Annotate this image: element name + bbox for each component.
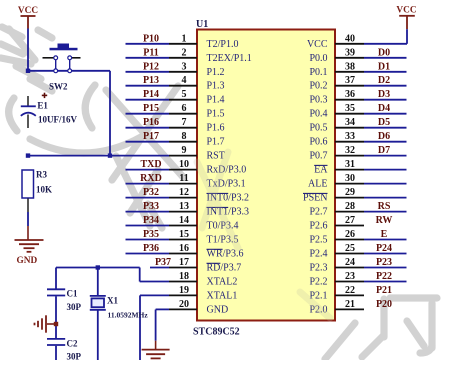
svg-text:P0.7: P0.7 [309, 151, 327, 162]
wire crystal top rail [56, 268, 140, 282]
svg-text:P0.4: P0.4 [309, 109, 327, 120]
pin 37 row (right) P0.2 [309, 75, 406, 92]
svg-text:P1.2: P1.2 [207, 67, 225, 78]
pin 3 row (left) P1.2 [126, 61, 225, 78]
node junction riser/RST [108, 153, 112, 157]
pin 36 row (right) P0.3 [309, 89, 406, 106]
pin 14 row (left) T0/P3.4 [126, 215, 239, 232]
pin 30 row (right) ALE [308, 173, 406, 190]
svg-text:U1: U1 [196, 19, 208, 30]
svg-text:RS: RS [378, 201, 391, 212]
node junction X1 top [96, 265, 100, 269]
svg-text:P35: P35 [143, 229, 159, 240]
svg-text:C2: C2 [67, 339, 78, 349]
svg-text:2: 2 [182, 47, 187, 58]
pin 39 row (right) P0.0 [309, 47, 406, 64]
svg-text:D1: D1 [378, 61, 390, 72]
svg-text:35: 35 [345, 103, 355, 114]
pin 10 row (left) RxD/P3.0 [126, 159, 247, 176]
svg-text:32: 32 [345, 145, 355, 156]
svg-text:D7: D7 [378, 145, 390, 156]
resistor R3 [22, 170, 52, 227]
wire VCC down to junction [27, 29, 29, 71]
svg-text:P1.3: P1.3 [207, 81, 225, 92]
pin 27 row (right) P2.6 [309, 215, 392, 232]
svg-text:C1: C1 [67, 289, 78, 299]
svg-text:P10: P10 [143, 33, 159, 44]
svg-text:10: 10 [179, 159, 189, 170]
svg-text:22: 22 [345, 285, 355, 296]
svg-text:24: 24 [345, 257, 355, 268]
svg-text:1: 1 [182, 33, 187, 44]
pin 18 row (left) XTAL2 [140, 271, 238, 288]
svg-text:P2.2: P2.2 [309, 277, 327, 288]
svg-text:21: 21 [345, 299, 355, 310]
ground (below pin 20) [142, 341, 170, 359]
svg-text:EA: EA [314, 165, 328, 176]
svg-text:P0.1: P0.1 [309, 67, 327, 78]
ground GND (below R3) [15, 226, 44, 266]
wire RST row [28, 155, 169, 157]
svg-text:P1.7: P1.7 [207, 137, 225, 148]
svg-text:P21: P21 [376, 285, 392, 296]
svg-text:13: 13 [179, 201, 189, 212]
svg-text:E1: E1 [37, 101, 48, 111]
pin 13 row (left) INT1/P3.3 [126, 201, 250, 218]
svg-text:36: 36 [345, 89, 355, 100]
svg-text:7: 7 [182, 117, 187, 128]
svg-text:3: 3 [182, 61, 187, 72]
pin 19 row (left) XTAL1 [140, 285, 237, 302]
pin 4 row (left) P1.3 [126, 75, 225, 92]
wire XTAL1 riser down [139, 295, 141, 360]
svg-text:GND: GND [17, 256, 38, 266]
wire VCC right down to pin40 [406, 29, 408, 44]
svg-text:D4: D4 [378, 103, 390, 114]
pin 7 row (left) P1.6 [126, 117, 225, 134]
pin 9 row (left) RST [169, 145, 225, 162]
svg-text:P14: P14 [143, 89, 159, 100]
svg-text:P32: P32 [143, 187, 159, 198]
svg-text:4: 4 [182, 75, 187, 86]
svg-text:P1.6: P1.6 [207, 123, 225, 134]
pin 40 row (right) VCC [307, 33, 407, 50]
svg-text:14: 14 [179, 215, 189, 226]
node junction at VCC/E1/SW2 [26, 69, 30, 73]
svg-text:P0.3: P0.3 [309, 95, 327, 106]
svg-text:P23: P23 [376, 257, 392, 268]
svg-text:P20: P20 [376, 299, 392, 310]
svg-text:P0.6: P0.6 [309, 137, 327, 148]
pin 29 row (right) PSEN [303, 187, 407, 204]
pin 5 row (left) P1.4 [126, 89, 225, 106]
wire junction to SW2 right, to riser [28, 70, 110, 72]
capacitor C1 [47, 268, 82, 325]
svg-text:P0.0: P0.0 [309, 53, 327, 64]
svg-text:D5: D5 [378, 117, 390, 128]
svg-text:P12: P12 [143, 61, 159, 72]
svg-text:P2.6: P2.6 [309, 221, 327, 232]
svg-text:E: E [381, 229, 388, 240]
svg-text:10UF/16V: 10UF/16V [38, 115, 77, 125]
svg-text:20: 20 [179, 299, 189, 310]
wire pin20 to ground [155, 310, 157, 341]
pin 28 row (right) P2.7 [309, 201, 406, 218]
svg-text:RXD: RXD [140, 173, 162, 184]
svg-text:P37: P37 [155, 257, 171, 268]
pin 23 row (right) P2.2 [309, 271, 406, 288]
svg-text:P1.5: P1.5 [207, 109, 225, 120]
svg-text:33: 33 [345, 131, 355, 142]
pin 11 row (left) TxD/P3.1 [126, 173, 246, 190]
svg-text:19: 19 [179, 285, 189, 296]
svg-text:31: 31 [345, 159, 355, 170]
svg-text:29: 29 [345, 187, 355, 198]
svg-text:P2.5: P2.5 [309, 235, 327, 246]
svg-text:10K: 10K [36, 185, 52, 195]
node junction C1/C2/GND [54, 322, 58, 326]
svg-text:XTAL2: XTAL2 [207, 277, 238, 288]
pin 26 row (right) P2.5 [309, 229, 406, 246]
svg-text:30: 30 [345, 173, 355, 184]
pin 38 row (right) P0.1 [309, 61, 406, 78]
svg-text:VCC: VCC [18, 6, 38, 16]
svg-text:P36: P36 [143, 243, 159, 254]
svg-text:RW: RW [376, 215, 393, 226]
pin 33 row (right) P0.6 [309, 131, 406, 148]
pin 16 row (left) WR/P3.6 [126, 243, 244, 260]
pin 20 row (left) GND [156, 299, 229, 316]
svg-text:5: 5 [182, 89, 187, 100]
svg-text:ALE: ALE [308, 179, 327, 190]
pin 8 row (left) P1.7 [126, 131, 225, 148]
svg-text:R3: R3 [36, 170, 47, 180]
svg-text:38: 38 [345, 61, 355, 72]
svg-text:P22: P22 [376, 271, 392, 282]
svg-text:6: 6 [182, 103, 187, 114]
pin 35 row (right) P0.4 [309, 103, 406, 120]
pin 1 row (left) T2/P1.0 [126, 33, 239, 50]
svg-text:30P: 30P [67, 352, 82, 361]
svg-text:STC89C52: STC89C52 [193, 327, 240, 338]
pin 25 row (right) P2.4 [309, 243, 406, 260]
svg-text:18: 18 [179, 271, 189, 282]
svg-text:16: 16 [179, 243, 189, 254]
svg-text:D6: D6 [378, 131, 390, 142]
svg-text:T2/P1.0: T2/P1.0 [207, 39, 239, 50]
pin 17 row (left) RD/P3.7 [150, 257, 241, 274]
svg-text:P24: P24 [376, 243, 392, 254]
svg-text:26: 26 [345, 229, 355, 240]
svg-text:40: 40 [345, 33, 355, 44]
pin 6 row (left) P1.5 [126, 103, 225, 120]
capacitor E1 electrolytic [21, 93, 78, 128]
node junction E1 bottom / R3 [26, 153, 30, 157]
pin 31 row (right) EA [314, 159, 406, 176]
svg-text:17: 17 [179, 257, 189, 268]
pin 21 row (right) P2.0 [309, 299, 392, 316]
svg-text:D0: D0 [378, 47, 390, 58]
svg-text:INT1/P3.3: INT1/P3.3 [207, 207, 250, 218]
pin 15 row (left) T1/P3.5 [126, 229, 239, 246]
svg-text:VCC: VCC [396, 6, 416, 16]
pin 2 row (left) T2EX/P1.1 [126, 47, 252, 64]
ground (rotated, left of C1/C2) [35, 315, 57, 332]
svg-text:P2.4: P2.4 [309, 249, 327, 260]
svg-text:23: 23 [345, 271, 355, 282]
svg-text:12: 12 [179, 187, 189, 198]
svg-text:P16: P16 [143, 117, 159, 128]
power VCC (top right) [396, 6, 416, 30]
pin 24 row (right) P2.3 [309, 257, 406, 274]
pin 12 row (left) INT0/P3.2 [126, 187, 250, 204]
svg-text:P17: P17 [143, 131, 159, 142]
capacitor C2 [47, 324, 82, 362]
crystal X1 [90, 268, 149, 361]
svg-text:39: 39 [345, 47, 355, 58]
svg-text:8: 8 [182, 131, 187, 142]
pin 22 row (right) P2.1 [309, 285, 392, 302]
svg-text:P0.5: P0.5 [309, 123, 327, 134]
svg-text:P11: P11 [143, 47, 159, 58]
pin 32 row (right) P0.7 [309, 145, 406, 162]
svg-text:28: 28 [345, 201, 355, 212]
svg-text:34: 34 [345, 117, 355, 128]
svg-text:XTAL1: XTAL1 [207, 290, 238, 301]
svg-text:P13: P13 [143, 75, 159, 86]
svg-text:P15: P15 [143, 103, 159, 114]
svg-text:37: 37 [345, 75, 355, 86]
wire riser down to RST row [109, 71, 111, 156]
svg-text:11.0592MHz: 11.0592MHz [108, 311, 149, 320]
pin 34 row (right) P0.5 [309, 117, 406, 134]
svg-text:D2: D2 [378, 75, 390, 86]
svg-text:TXD: TXD [140, 159, 161, 170]
svg-text:X1: X1 [107, 296, 118, 306]
svg-text:27: 27 [345, 215, 355, 226]
svg-text:SW2: SW2 [49, 82, 68, 92]
svg-text:11: 11 [179, 173, 188, 184]
switch SW2 (push button) [43, 44, 81, 92]
svg-text:GND: GND [207, 304, 229, 315]
svg-text:P34: P34 [143, 215, 159, 226]
svg-text:P1.4: P1.4 [207, 95, 225, 106]
IC U1 (STC89C52 MCU) body [197, 30, 335, 321]
svg-text:P33: P33 [143, 201, 159, 212]
svg-text:T2EX/P1.1: T2EX/P1.1 [207, 53, 252, 64]
svg-text:25: 25 [345, 243, 355, 254]
svg-text:9: 9 [182, 145, 187, 156]
watermark bleed-through (decorative) [197, 152, 330, 318]
svg-text:RD/P3.7: RD/P3.7 [207, 263, 242, 274]
svg-text:P2.3: P2.3 [309, 263, 327, 274]
svg-text:P2.7: P2.7 [309, 207, 327, 218]
power VCC (top left) [18, 6, 38, 29]
svg-text:15: 15 [179, 229, 189, 240]
svg-text:P0.2: P0.2 [309, 81, 327, 92]
svg-text:30P: 30P [67, 302, 82, 312]
svg-text:D3: D3 [378, 89, 390, 100]
svg-text:VCC: VCC [307, 39, 328, 50]
svg-text:PSEN: PSEN [303, 193, 327, 204]
